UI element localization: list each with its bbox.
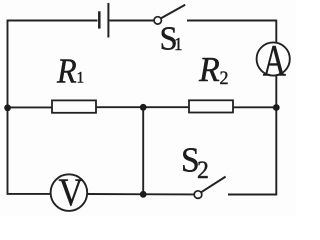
wire: bottom, voltmeter to S2 pivot [87,193,194,195]
wire: S1 to top-right corner [187,20,277,22]
voltmeter V1 circle [51,174,88,211]
label R1 [56,52,84,91]
wire: middle vertical, junction to bottom junction [142,107,144,194]
wire: R2 to right junction [233,106,276,108]
resistor R1 (box) [52,100,96,112]
svg-text:2: 2 [197,156,209,184]
wire: battery to switch S1 [109,20,154,22]
wire: right vertical, corner down to ammeter [275,20,277,43]
wire: top, left segment to battery [7,20,98,22]
wire: R1 to R2 [96,106,190,108]
switch S2 (open, pivot circle + lever) [194,177,225,199]
wire: bottom, right segment from S2 gap to corner [228,194,277,196]
wire: ammeter to right junction [275,76,277,108]
junction node: bottom (middle vertical meets bottom wire) [140,191,147,198]
wire: middle row, left end to R1 [7,106,53,108]
wire: bottom, left corner to voltmeter [7,193,51,195]
junction node: middle (R1-R2 wire meets middle vertical) [140,104,147,111]
battery B1 (cell: short thick plate left, long thin plate right) [99,3,108,38]
ammeter A1 circle [257,42,290,75]
label S2 [181,141,209,184]
svg-text:1: 1 [174,34,183,55]
svg-text:2: 2 [220,68,229,90]
switch S1 (open, pivot circle + lever) [154,5,185,24]
svg-text:R: R [198,51,220,90]
svg-text:R: R [56,52,77,91]
label S1 [160,20,183,58]
svg-text:1: 1 [77,69,85,86]
junction node: left (middle wire meets left vertical) [4,104,11,111]
label R2 [198,51,229,90]
resistor R2 (box) [189,100,233,112]
junction node: right (middle wire meets right vertical) [273,104,280,111]
svg-text:A: A [263,37,286,85]
wire: right vertical, junction down to bottom-right corner [275,108,277,195]
wire: left vertical (top-left corner to bottom-left corner) [7,20,9,194]
svg-text:V: V [59,170,84,214]
